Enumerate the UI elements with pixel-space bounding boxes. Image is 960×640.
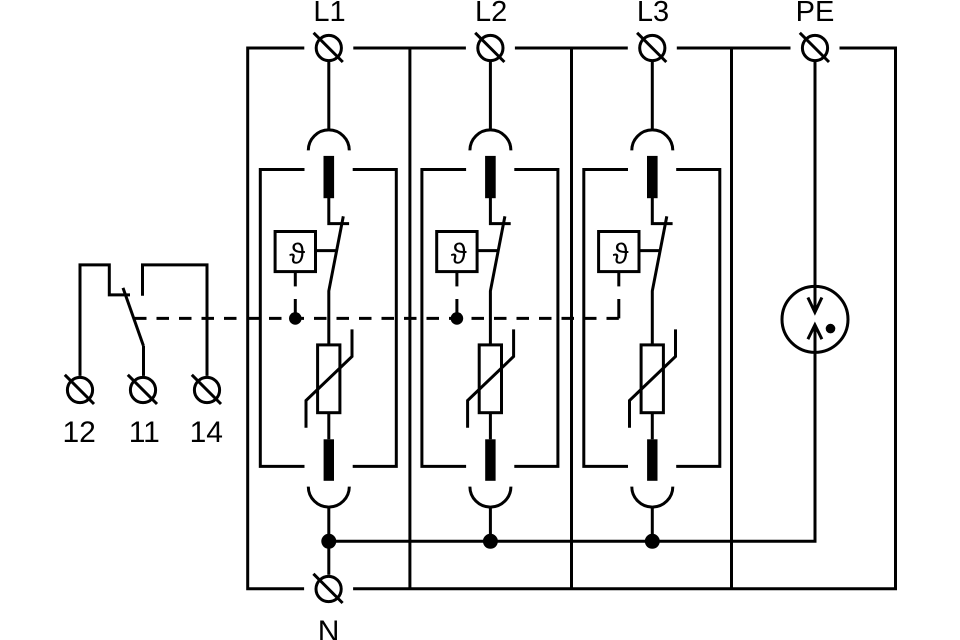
module enclosure box L1 [260, 170, 396, 467]
svg-text:PE: PE [796, 0, 835, 28]
N bus line and PE riser wire to spark gap [329, 325, 815, 541]
wire varistor to lower electrode L3 [651, 413, 654, 440]
plug-in disconnector upper arc L2 [470, 130, 511, 151]
top bus segment L1-L2 [353, 47, 466, 50]
lower electrode bar L2 [485, 439, 495, 481]
svg-text:ϑ: ϑ [451, 238, 467, 270]
varistor RV2 body [479, 345, 501, 413]
wire arc to N bus L2 [489, 507, 492, 541]
upper electrode bar L3 [647, 156, 658, 198]
terminal 11 [128, 375, 157, 404]
terminal 14 [192, 375, 221, 404]
wire junction L1 down to terminal N [327, 541, 330, 575]
remote contact: wire terminal 12 to NC contact [80, 265, 130, 376]
plug-in disconnector upper arc L3 [632, 130, 673, 151]
outer frame right side (top-right, right edge, bottom) [353, 48, 895, 589]
thermal sensor box U1 [275, 232, 315, 272]
terminal L2 [475, 33, 504, 62]
varistor RV1 strike line [306, 329, 352, 427]
thermal sensor box U2 [437, 232, 477, 272]
junction node L2/N bus [483, 534, 498, 549]
wire arc to N bus L1 [327, 507, 330, 541]
wire from terminal L3 down to disconnector arc [651, 62, 654, 130]
thermal sensor box U3 [599, 232, 639, 272]
dashed trip linkage from sensor U3 [617, 272, 620, 287]
linkage node L2 [451, 312, 464, 325]
top bus segment L3-PE [677, 47, 791, 50]
link thermal sensor to blade L1 [316, 249, 338, 252]
junction node L1/N bus [321, 534, 336, 549]
linkage node L1 [289, 312, 302, 325]
module enclosure box L2 [422, 170, 558, 467]
divider L2/L3 [570, 48, 573, 589]
plug-in disconnector lower arc L3 [632, 487, 673, 508]
wire varistor to lower electrode L2 [489, 413, 492, 440]
thermal disconnect switch blade L3 [652, 216, 667, 345]
wire PE terminal to spark gap [814, 62, 817, 312]
upper electrode bar L1 [324, 156, 335, 198]
lower electrode bar L1 [324, 439, 334, 481]
remote contact changeover blade K1 [123, 288, 144, 346]
svg-text:12: 12 [63, 416, 96, 449]
svg-text:L1: L1 [313, 0, 345, 28]
terminal 12 [65, 375, 94, 404]
module enclosure box L3 [584, 170, 720, 467]
wire from terminal L2 down to disconnector arc [489, 62, 492, 130]
varistor RV3 body [641, 345, 663, 413]
junction node L3/N bus [645, 534, 660, 549]
spark gap F1 circle [782, 286, 848, 352]
spark gap upper arrowhead [808, 298, 822, 313]
thermal disconnect fixed contact L2 [490, 198, 510, 224]
svg-text:ϑ: ϑ [289, 238, 305, 270]
wire from terminal L1 down to disconnector arc [327, 62, 330, 130]
terminal L3 [637, 33, 666, 62]
upper electrode bar L2 [485, 156, 496, 198]
thermal disconnect switch blade L1 [329, 216, 344, 345]
terminal N [313, 574, 342, 603]
remote contact: wire terminal 11 common [142, 346, 145, 376]
remote contact: wire terminal 14 to NO contact [143, 265, 208, 376]
divider L3/PE [730, 48, 733, 589]
svg-text:L3: L3 [637, 0, 669, 28]
spark gap trigger dot [826, 324, 836, 334]
plug-in disconnector lower arc L2 [470, 487, 511, 508]
dashed trip linkage from sensor U1 [294, 272, 297, 287]
link thermal sensor to blade L3 [639, 249, 661, 252]
thermal disconnect fixed contact L1 [329, 198, 349, 224]
link thermal sensor to blade L2 [477, 249, 499, 252]
varistor RV1 body [318, 345, 340, 413]
top bus segment L2-L3 [515, 47, 628, 50]
varistor RV2 strike line [468, 329, 514, 427]
terminal PE [800, 33, 829, 62]
varistor RV3 strike line [630, 329, 676, 427]
plug-in disconnector upper arc L1 [308, 130, 349, 150]
svg-text:11: 11 [129, 416, 160, 449]
lower electrode bar L3 [647, 439, 657, 481]
svg-text:ϑ: ϑ [613, 238, 629, 270]
thermal disconnect switch blade L2 [490, 216, 505, 345]
svg-text:14: 14 [190, 416, 223, 449]
dashed trip linkage bus [134, 317, 619, 320]
spark gap lower arrowhead [808, 325, 822, 339]
svg-text:N: N [318, 615, 340, 640]
outer frame left side (top-left, left edge, bottom-left) [248, 48, 305, 589]
svg-text:L2: L2 [475, 0, 507, 28]
wire varistor to lower electrode L1 [327, 413, 330, 440]
wire arc to N bus L3 [651, 507, 654, 541]
terminal L1 [314, 33, 343, 62]
dashed trip linkage from sensor U2 [455, 272, 458, 287]
plug-in disconnector lower arc L1 [308, 487, 349, 507]
thermal disconnect fixed contact L3 [652, 198, 672, 224]
divider L1/L2 [408, 48, 411, 589]
